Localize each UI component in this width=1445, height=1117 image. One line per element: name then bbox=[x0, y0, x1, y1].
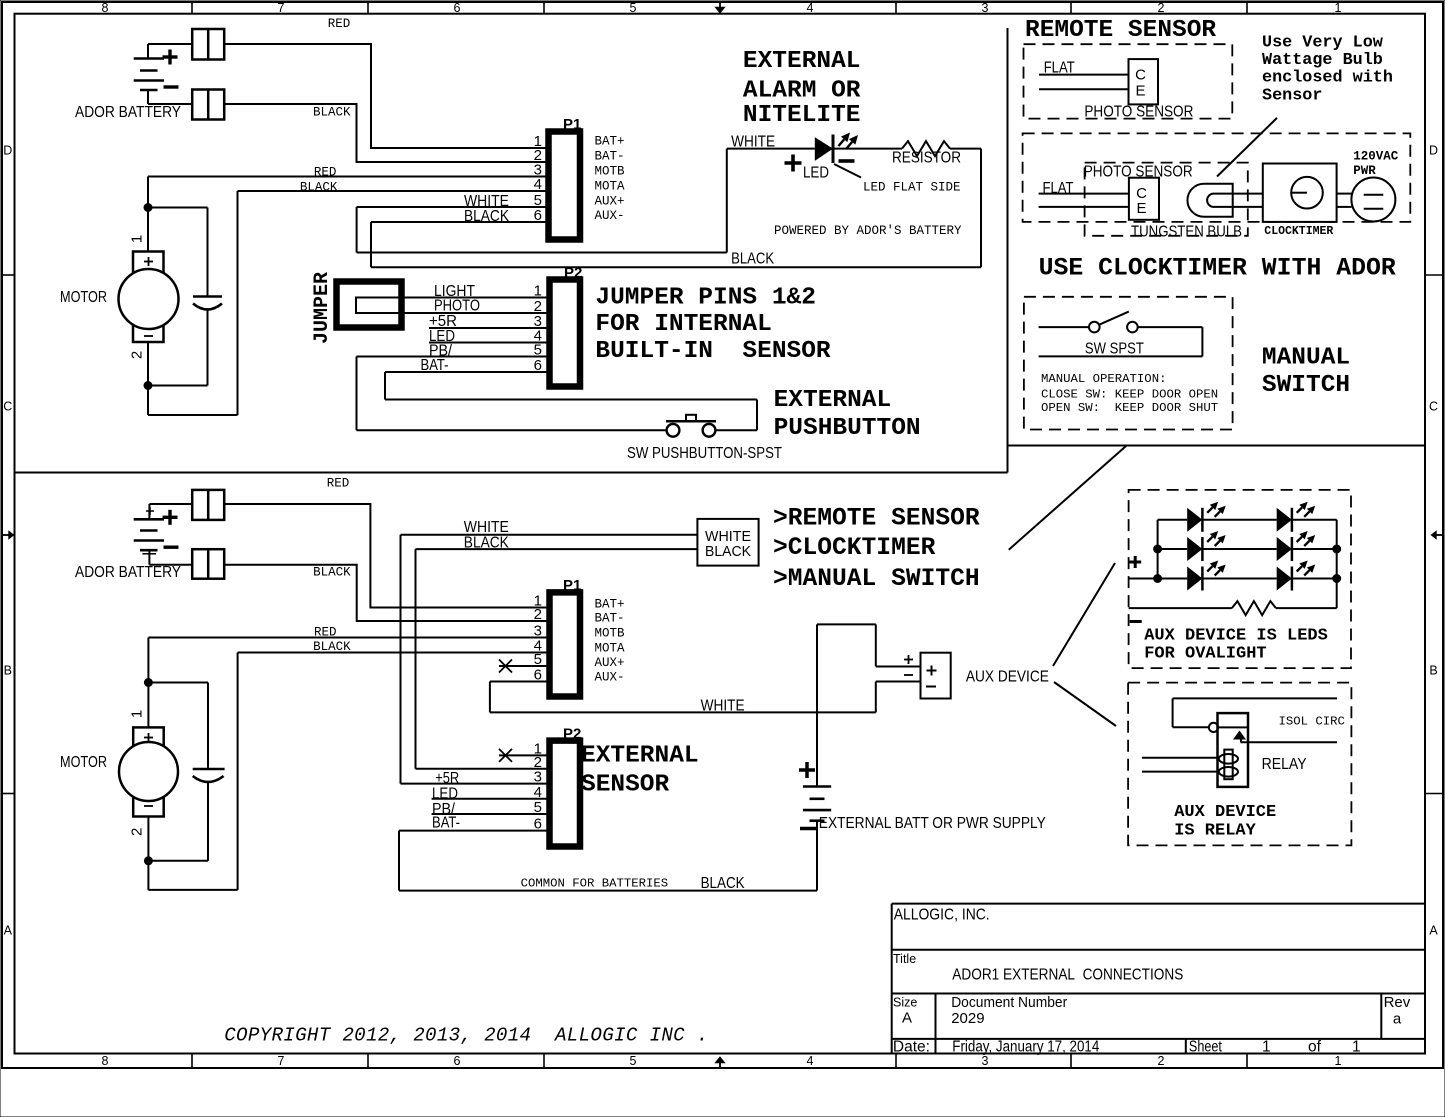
svg-text:E: E bbox=[1135, 83, 1145, 100]
svg-text:AUX DEVICE IS LEDS: AUX DEVICE IS LEDS bbox=[1144, 626, 1328, 645]
svg-text:OPEN SW: KEEP DOOR SHUT: OPEN SW: KEEP DOOR SHUT bbox=[1041, 401, 1218, 415]
svg-text:JUMPER PINS 1&2: JUMPER PINS 1&2 bbox=[595, 285, 816, 312]
svg-text:A: A bbox=[4, 923, 13, 937]
svg-text:Friday, January 17, 2014: Friday, January 17, 2014 bbox=[952, 1039, 1099, 1056]
svg-text:EXTERNAL: EXTERNAL bbox=[774, 387, 892, 414]
svg-text:BLACK: BLACK bbox=[313, 566, 351, 580]
svg-text:A: A bbox=[902, 1010, 912, 1027]
svg-text:2: 2 bbox=[534, 606, 542, 623]
svg-text:CLOSE SW: KEEP DOOR OPEN: CLOSE SW: KEEP DOOR OPEN bbox=[1041, 387, 1218, 401]
svg-text:BLACK: BLACK bbox=[313, 106, 351, 120]
svg-text:BLACK: BLACK bbox=[464, 535, 509, 552]
svg-text:COMMON FOR BATTERIES: COMMON FOR BATTERIES bbox=[521, 877, 669, 891]
svg-text:1: 1 bbox=[1335, 1054, 1342, 1068]
svg-text:+5R: +5R bbox=[435, 770, 459, 787]
svg-text:6: 6 bbox=[534, 357, 542, 374]
svg-text:BAT+: BAT+ bbox=[595, 135, 625, 149]
svg-text:PWR: PWR bbox=[1353, 164, 1376, 178]
svg-text:E: E bbox=[1136, 200, 1146, 217]
svg-text:MOTB: MOTB bbox=[595, 627, 626, 641]
svg-text:BLACK: BLACK bbox=[300, 180, 338, 194]
svg-text:1: 1 bbox=[1335, 1, 1342, 15]
svg-text:CLOCKTIMER: CLOCKTIMER bbox=[1264, 225, 1333, 238]
svg-text:P2: P2 bbox=[563, 726, 581, 743]
svg-text:120VAC: 120VAC bbox=[1353, 150, 1399, 164]
svg-text:5: 5 bbox=[630, 1054, 637, 1068]
svg-text:RESISTOR: RESISTOR bbox=[892, 149, 961, 166]
svg-text:EXTERNAL: EXTERNAL bbox=[743, 48, 861, 75]
svg-text:4: 4 bbox=[534, 176, 542, 193]
svg-text:SENSOR: SENSOR bbox=[581, 772, 670, 799]
svg-text:C: C bbox=[3, 399, 12, 413]
svg-text:SW SPST: SW SPST bbox=[1085, 340, 1144, 357]
svg-text:BLACK: BLACK bbox=[464, 208, 509, 225]
svg-text:BAT+: BAT+ bbox=[595, 598, 625, 612]
svg-text:1: 1 bbox=[1352, 1039, 1361, 1056]
svg-text:AUX+: AUX+ bbox=[595, 195, 625, 209]
svg-text:BUILT-IN SENSOR: BUILT-IN SENSOR bbox=[595, 338, 831, 365]
svg-text:2: 2 bbox=[1158, 1, 1165, 15]
svg-text:BLACK: BLACK bbox=[705, 544, 751, 560]
svg-text:ADOR BATTERY: ADOR BATTERY bbox=[75, 564, 181, 581]
svg-text:MOTOR: MOTOR bbox=[60, 754, 107, 771]
svg-text:8: 8 bbox=[102, 1, 109, 15]
svg-text:>REMOTE SENSOR: >REMOTE SENSOR bbox=[773, 506, 980, 533]
svg-text:BAT-: BAT- bbox=[432, 814, 460, 831]
svg-text:P2: P2 bbox=[564, 265, 582, 282]
svg-text:7: 7 bbox=[278, 1054, 285, 1068]
svg-text:RELAY: RELAY bbox=[1262, 756, 1307, 773]
svg-text:4: 4 bbox=[807, 1054, 814, 1068]
svg-text:WHITE: WHITE bbox=[701, 698, 745, 715]
svg-text:6: 6 bbox=[454, 1054, 461, 1068]
svg-text:BAT-: BAT- bbox=[595, 612, 625, 626]
svg-text:1: 1 bbox=[534, 283, 542, 300]
svg-text:Wattage Bulb: Wattage Bulb bbox=[1262, 51, 1383, 70]
svg-text:6: 6 bbox=[454, 1, 461, 15]
svg-text:TUNGSTEN BULB: TUNGSTEN BULB bbox=[1131, 224, 1242, 241]
svg-text:MOTA: MOTA bbox=[595, 642, 626, 656]
svg-text:1: 1 bbox=[129, 710, 146, 718]
svg-text:Size: Size bbox=[893, 996, 917, 1010]
svg-text:REMOTE SENSOR: REMOTE SENSOR bbox=[1025, 17, 1216, 44]
svg-text:WHITE: WHITE bbox=[705, 529, 751, 545]
svg-text:MANUAL OPERATION:: MANUAL OPERATION: bbox=[1041, 372, 1166, 386]
svg-text:ADOR1 EXTERNAL CONNECTIONS: ADOR1 EXTERNAL CONNECTIONS bbox=[952, 967, 1183, 984]
svg-text:SW PUSHBUTTON-SPST: SW PUSHBUTTON-SPST bbox=[627, 445, 782, 462]
svg-text:MANUAL: MANUAL bbox=[1262, 345, 1350, 372]
svg-text:ALLOGIC, INC.: ALLOGIC, INC. bbox=[894, 907, 990, 924]
svg-text:AUX DEVICE: AUX DEVICE bbox=[966, 669, 1049, 686]
svg-text:PHOTO SENSOR: PHOTO SENSOR bbox=[1084, 103, 1193, 120]
svg-text:Date:: Date: bbox=[893, 1039, 930, 1056]
svg-text:ADOR BATTERY: ADOR BATTERY bbox=[75, 104, 181, 121]
svg-text:2029: 2029 bbox=[951, 1010, 984, 1027]
svg-text:RED: RED bbox=[327, 477, 350, 491]
svg-text:>MANUAL SWITCH: >MANUAL SWITCH bbox=[773, 566, 980, 593]
svg-text:D: D bbox=[1429, 143, 1438, 157]
svg-text:LED: LED bbox=[803, 164, 829, 181]
svg-text:MOTB: MOTB bbox=[595, 165, 626, 179]
svg-text:AUX-: AUX- bbox=[595, 209, 625, 223]
svg-text:BAT-: BAT- bbox=[421, 357, 449, 374]
svg-text:POWERED BY ADOR'S BATTERY: POWERED BY ADOR'S BATTERY bbox=[774, 224, 962, 238]
svg-text:3: 3 bbox=[982, 1, 989, 15]
svg-text:BLACK: BLACK bbox=[731, 251, 774, 268]
svg-text:WHITE: WHITE bbox=[731, 133, 775, 150]
svg-text:Document Number: Document Number bbox=[951, 994, 1067, 1011]
svg-text:Use Very Low: Use Very Low bbox=[1262, 33, 1383, 52]
svg-text:Rev: Rev bbox=[1384, 994, 1411, 1011]
svg-text:USE CLOCKTIMER WITH ADOR: USE CLOCKTIMER WITH ADOR bbox=[1039, 254, 1396, 282]
svg-text:5: 5 bbox=[630, 1, 637, 15]
svg-text:a: a bbox=[1393, 1011, 1402, 1028]
svg-text:AUX-: AUX- bbox=[595, 671, 625, 685]
svg-text:A: A bbox=[1429, 923, 1438, 937]
svg-text:FOR INTERNAL: FOR INTERNAL bbox=[595, 311, 771, 338]
svg-text:MOTA: MOTA bbox=[595, 180, 626, 194]
svg-text:EXTERNAL: EXTERNAL bbox=[581, 742, 699, 769]
svg-text:PUSHBUTTON: PUSHBUTTON bbox=[774, 415, 921, 442]
svg-text:COPYRIGHT 2012, 2013, 2014 AL: COPYRIGHT 2012, 2013, 2014 ALLOGIC INC . bbox=[224, 1025, 708, 1047]
svg-text:C: C bbox=[1429, 399, 1438, 413]
svg-text:LED FLAT SIDE: LED FLAT SIDE bbox=[863, 181, 961, 195]
svg-text:of: of bbox=[1308, 1039, 1322, 1056]
svg-text:FOR OVALIGHT: FOR OVALIGHT bbox=[1144, 644, 1266, 663]
svg-text:AUX+: AUX+ bbox=[595, 656, 625, 670]
svg-text:RED: RED bbox=[328, 17, 351, 31]
svg-text:Sensor: Sensor bbox=[1262, 86, 1322, 105]
svg-text:ISOL CIRC: ISOL CIRC bbox=[1279, 715, 1345, 729]
svg-text:6: 6 bbox=[534, 207, 542, 224]
svg-text:D: D bbox=[3, 143, 12, 157]
svg-text:AUX DEVICE: AUX DEVICE bbox=[1174, 803, 1276, 822]
svg-text:Sheet: Sheet bbox=[1189, 1039, 1223, 1056]
svg-text:P1: P1 bbox=[563, 116, 581, 133]
svg-text:2: 2 bbox=[129, 828, 146, 836]
svg-text:2: 2 bbox=[1158, 1054, 1165, 1068]
svg-text:C: C bbox=[1135, 66, 1146, 83]
svg-text:JUMPER: JUMPER bbox=[311, 272, 334, 344]
svg-text:6: 6 bbox=[534, 816, 542, 833]
svg-text:Title: Title bbox=[893, 952, 916, 966]
svg-text:NITELITE: NITELITE bbox=[743, 102, 861, 129]
svg-text:>CLOCKTIMER: >CLOCKTIMER bbox=[773, 535, 936, 562]
svg-text:WHITE: WHITE bbox=[464, 519, 509, 536]
svg-text:3: 3 bbox=[982, 1054, 989, 1068]
svg-text:PHOTO: PHOTO bbox=[434, 297, 480, 314]
svg-text:B: B bbox=[1429, 663, 1437, 677]
svg-text:enclosed with: enclosed with bbox=[1262, 69, 1393, 88]
svg-text:SWITCH: SWITCH bbox=[1262, 372, 1350, 399]
svg-text:4: 4 bbox=[807, 1, 814, 15]
svg-text:1: 1 bbox=[129, 235, 146, 243]
svg-text:8: 8 bbox=[102, 1054, 109, 1068]
svg-text:B: B bbox=[4, 663, 12, 677]
svg-text:EXTERNAL BATT OR PWR SUPPLY: EXTERNAL BATT OR PWR SUPPLY bbox=[819, 815, 1046, 832]
svg-text:2: 2 bbox=[129, 351, 146, 359]
svg-text:5: 5 bbox=[534, 799, 542, 816]
svg-text:P1: P1 bbox=[563, 577, 581, 594]
svg-text:BAT-: BAT- bbox=[595, 150, 625, 164]
svg-text:ALARM OR: ALARM OR bbox=[743, 78, 861, 105]
svg-text:1: 1 bbox=[1262, 1039, 1271, 1056]
svg-text:MOTOR: MOTOR bbox=[60, 289, 107, 306]
svg-text:BLACK: BLACK bbox=[701, 875, 745, 892]
svg-text:IS RELAY: IS RELAY bbox=[1174, 822, 1256, 841]
svg-text:5: 5 bbox=[534, 342, 542, 359]
svg-text:7: 7 bbox=[278, 1, 285, 15]
